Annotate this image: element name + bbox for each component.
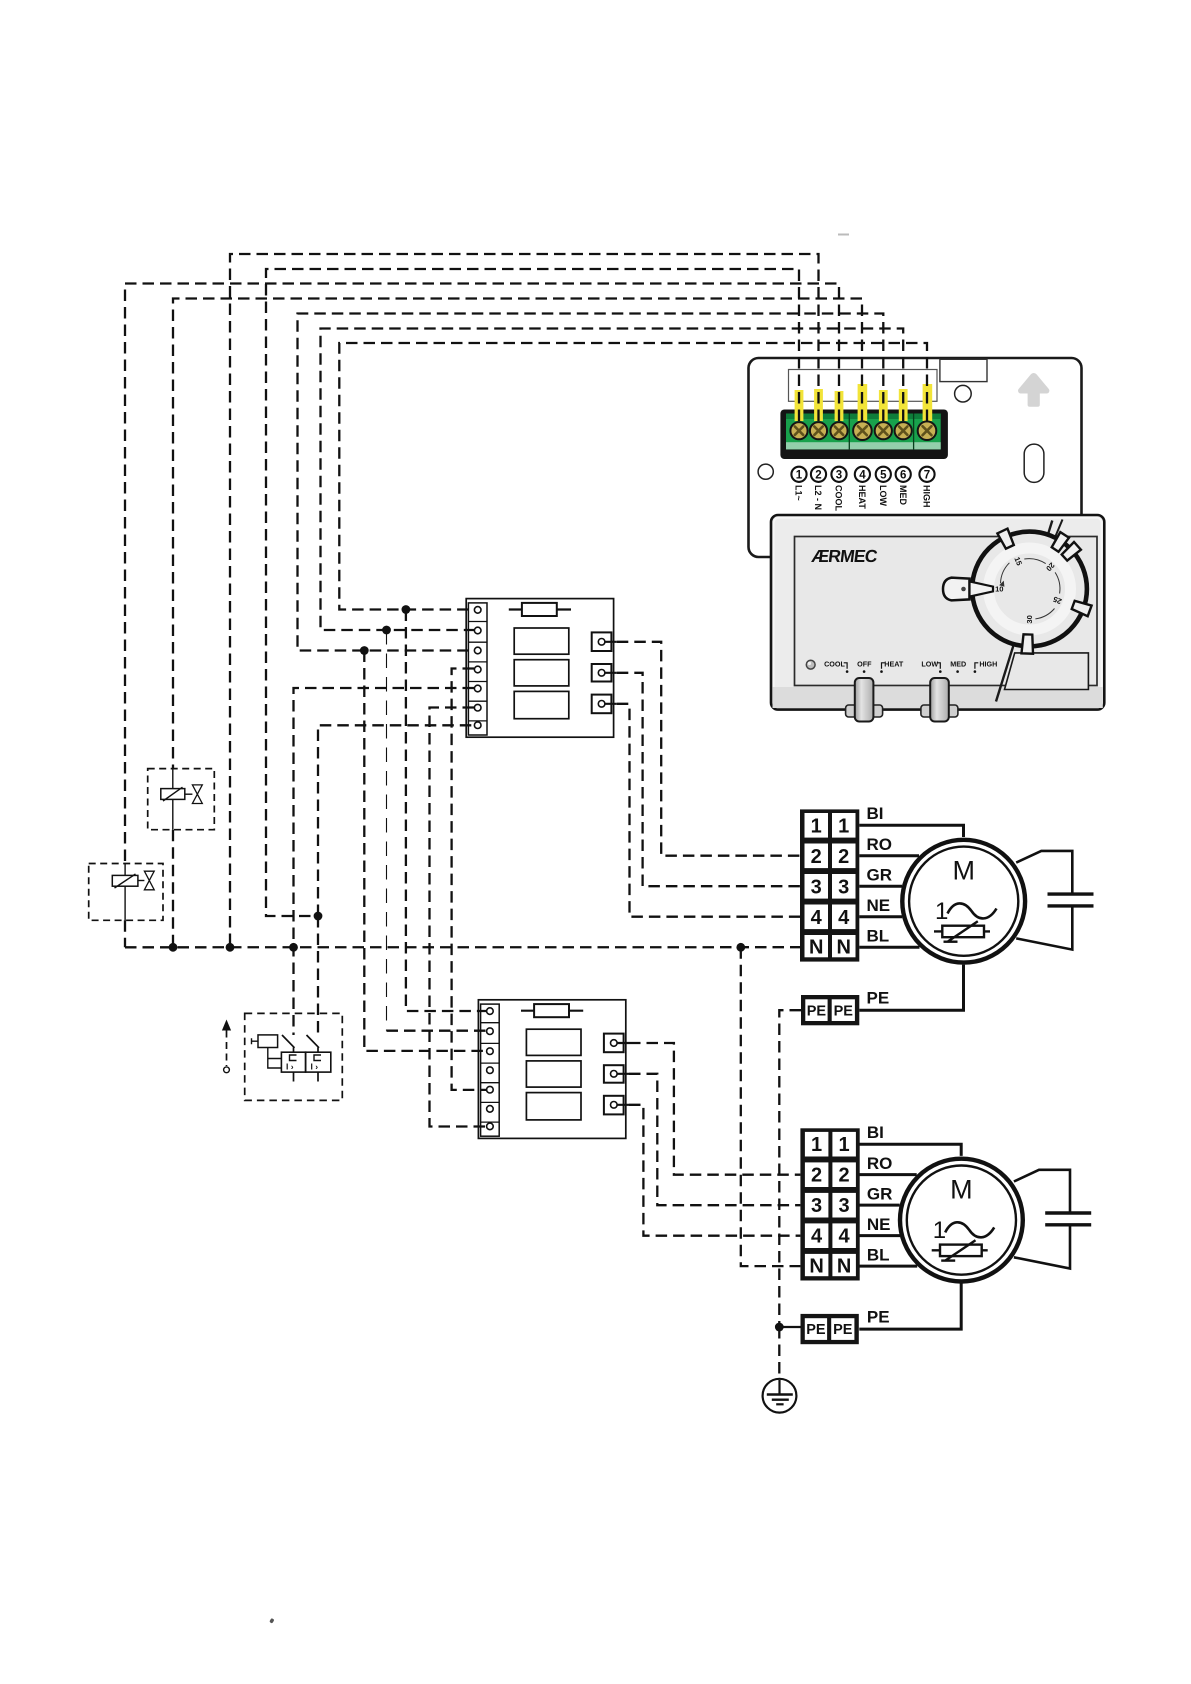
junction PE riser / motor 2 PE — [775, 1323, 784, 1332]
svg-text:L2 - N: L2 - N — [813, 485, 823, 510]
svg-text:RO: RO — [867, 835, 893, 854]
svg-text:1: 1 — [838, 815, 849, 837]
thermostat terminal number rings 1-7 — [791, 467, 934, 482]
wire relay K1 terminal 6 to relay K2 terminal 7 — [430, 708, 487, 1127]
wire L1 junction to relay K1 terminal 7 — [318, 725, 474, 916]
yellow wire stubs into terminals 1-7 — [795, 384, 933, 421]
svg-text:N: N — [837, 1255, 851, 1277]
motor 1 PE terminal block — [801, 995, 859, 1025]
mounting hole (round, upper) — [955, 385, 972, 402]
svg-text:LOW: LOW — [878, 485, 888, 506]
svg-text:OFF: OFF — [857, 659, 872, 668]
svg-text:MED: MED — [898, 485, 908, 506]
motor 1 terminal block (1 2 3 4 N) — [800, 809, 859, 961]
K2 output stubs — [617, 1043, 629, 1105]
wire LOW branch to relay K2 terminal 3 — [364, 651, 486, 1051]
svg-text:RO: RO — [867, 1154, 893, 1173]
svg-text:PE: PE — [807, 1003, 827, 1019]
K2 relay coil 1 — [526, 1029, 581, 1055]
label sticker (quadrilateral) — [1005, 653, 1089, 690]
terminal block green body — [786, 414, 941, 450]
svg-text:2: 2 — [838, 846, 849, 868]
manual actuation arrow beside QM — [222, 1020, 231, 1073]
K1 relay coil 2 — [514, 660, 569, 686]
svg-text:PE: PE — [867, 989, 890, 1008]
relay K2 input terminal screws 1-7 — [487, 1008, 617, 1130]
Y1 valve body — [192, 785, 202, 804]
terminal group separators — [848, 414, 850, 450]
junction neutral bus / motor 2 N riser — [736, 943, 745, 952]
slider handle LOW/MED/HIGH — [930, 678, 949, 722]
wire relay K1 output 1 to motor 1 terminal 2 — [617, 642, 800, 856]
motor 1 (M 1~ with thermal protector) — [859, 825, 1025, 1010]
motor 2 sine symbol — [945, 1222, 994, 1237]
wire PE link to motor 2 PE block (solid) — [779, 1326, 800, 1328]
svg-text:COOL: COOL — [834, 485, 844, 512]
svg-text:1: 1 — [839, 1134, 850, 1156]
wire relay K2 output 1 to motor 2 terminal 2 — [629, 1043, 800, 1175]
terminal opening window — [789, 370, 938, 402]
wire relay K1 output 2 to motor 1 terminal 3 — [617, 673, 800, 886]
svg-text:3: 3 — [811, 876, 822, 898]
svg-text:1: 1 — [811, 815, 822, 837]
junction neutral bus / L2-N feed — [226, 943, 235, 952]
svg-text:4: 4 — [838, 907, 850, 929]
dial scale arcs — [1001, 559, 1060, 619]
temperature dial — [943, 529, 1092, 654]
motor 2 thermal protector symbol — [932, 1249, 988, 1251]
K1 relay coil 3 — [514, 691, 569, 718]
Y2 valve body — [144, 871, 154, 890]
motor protection switch QM (dashed enclosure) — [245, 1013, 343, 1100]
K1 relay coil 1 — [514, 628, 569, 654]
wire LOW thermostat 5 to relay K1 terminal 3 — [298, 314, 884, 651]
mode labels — [824, 659, 997, 668]
svg-text:ÆRMEC: ÆRMEC — [811, 546, 880, 566]
neutral bus — [125, 946, 800, 948]
stray print speck top right — [838, 234, 849, 236]
motor 1 sine symbol — [948, 903, 997, 918]
motor 1 wire labels — [867, 804, 893, 1008]
wire L1 junction down to QM pole 2 — [317, 916, 319, 1035]
wire COOL thermostat 3 through valve Y2 to bus — [125, 284, 839, 864]
motor 2 wire labels — [867, 1123, 893, 1327]
junction dots — [169, 605, 784, 1331]
svg-text:1: 1 — [796, 469, 803, 481]
terminal block housing (black) — [780, 410, 948, 460]
relay board K1 (upper fan-speed relay box) — [466, 599, 617, 738]
motor 2 PE lead — [859, 1284, 961, 1330]
svg-text:GR: GR — [867, 866, 893, 885]
Y1 coil — [161, 789, 185, 800]
K1 output terminal 1 — [592, 632, 612, 651]
motor 2 PE terminal block — [801, 1314, 859, 1344]
QM pole 2 contact blade — [307, 1035, 320, 1048]
svg-text:1: 1 — [935, 898, 948, 925]
junction LOW branch — [360, 646, 369, 655]
junction L1 node — [314, 912, 323, 921]
wire relay K2 output 2 to motor 2 terminal 3 — [629, 1074, 800, 1205]
svg-text:NE: NE — [867, 1215, 891, 1234]
svg-text:2: 2 — [815, 469, 821, 481]
Y2 through wire — [124, 864, 126, 921]
K1 output stubs — [605, 642, 617, 704]
wire relay K1 terminal 5 to neutral bus and QM pole 1 — [294, 688, 475, 1035]
junction neutral bus / K1 terminal 5 riser — [289, 943, 298, 952]
svg-text:1: 1 — [811, 1134, 822, 1156]
svg-text:PE: PE — [806, 1322, 826, 1338]
wire HIGH thermostat 7 to relay K1 terminal 1 — [339, 343, 927, 610]
svg-text:BL: BL — [867, 1245, 890, 1264]
Y1 through wire — [172, 769, 174, 830]
dial numbers — [995, 556, 1063, 624]
wire MED branch riser (thin) — [386, 630, 388, 1031]
K2 input terminal strip — [481, 1004, 500, 1136]
junction neutral bus / HEAT valve return — [169, 943, 178, 952]
K2 output terminal 2 — [604, 1065, 624, 1083]
motor 1 PE lead — [859, 965, 963, 1011]
Y2 coil — [112, 875, 138, 886]
svg-text:BI: BI — [867, 1123, 884, 1142]
svg-text:I ›: I › — [286, 1061, 294, 1071]
QM overload trip labels I> — [286, 1061, 318, 1071]
relay K1 input terminal screws 1-7 — [474, 607, 604, 729]
K1 output terminal 3 — [592, 695, 612, 714]
svg-text:L1~: L1~ — [794, 485, 804, 501]
wire relay K2 output 3 to motor 2 terminal 4 — [629, 1105, 800, 1236]
mounting hole (round, left) — [758, 464, 773, 479]
wire relay K1 output 3 to motor 1 terminal 4 — [617, 704, 800, 917]
svg-text:MED: MED — [950, 659, 966, 668]
svg-text:BI: BI — [867, 804, 884, 823]
junction MED branch — [382, 626, 391, 635]
svg-text:4: 4 — [811, 907, 823, 929]
wire HEAT thermostat 4 through valve Y1 to bus — [173, 299, 862, 769]
orientation arrow (grey, up) — [1018, 373, 1049, 407]
dial grip slots — [997, 529, 1091, 654]
svg-text:3: 3 — [836, 469, 842, 481]
wire HIGH branch to relay K2 terminal 1 — [406, 610, 487, 1012]
svg-text:1: 1 — [933, 1217, 946, 1244]
svg-text:5: 5 — [880, 469, 887, 481]
motor 2 lead wires — [859, 1144, 961, 1266]
svg-text:7: 7 — [924, 469, 930, 481]
QM operator stub — [252, 1038, 259, 1044]
svg-text:HIGH: HIGH — [979, 659, 997, 668]
svg-text:4: 4 — [839, 1226, 851, 1248]
K2 relay coil 3 — [526, 1093, 581, 1120]
wire MED branch to relay K2 terminal 2 (horizontal) — [387, 1030, 487, 1032]
svg-text:I ›: I › — [311, 1061, 319, 1071]
svg-text:N: N — [809, 937, 823, 959]
svg-text:4: 4 — [859, 469, 866, 481]
svg-text:GR: GR — [867, 1184, 893, 1203]
K2 output terminal 1 — [604, 1034, 624, 1053]
thermostat wall backplate — [749, 358, 1082, 557]
junction HIGH branch — [402, 605, 411, 614]
K2 relay coil 2 — [526, 1061, 581, 1087]
raised facet edge (diagonal, bottom right) — [996, 521, 1052, 702]
svg-text:N: N — [836, 937, 850, 959]
svg-text:3: 3 — [839, 1195, 850, 1217]
svg-text:PE: PE — [834, 1003, 854, 1019]
thermostat terminal screws 1-7 (brass) — [790, 421, 936, 440]
svg-text:10: 10 — [995, 584, 1003, 593]
relay K1 output terminal screws — [598, 639, 605, 646]
clip rectangle top right of backplate — [940, 359, 987, 381]
QM pole 1 overload box — [281, 1052, 305, 1072]
slider slot tabs under cover edge — [846, 705, 958, 717]
stray print speck bottom left — [269, 1618, 274, 1624]
svg-text:HEAT: HEAT — [884, 659, 904, 668]
svg-text:COOL: COOL — [824, 659, 845, 668]
AERMEC logo — [811, 546, 880, 566]
fuse F1 — [509, 608, 571, 610]
svg-text:M: M — [952, 856, 975, 886]
svg-text:2: 2 — [811, 846, 822, 868]
LED indicator — [806, 660, 815, 669]
K1 input terminal strip — [468, 603, 487, 735]
svg-text:HIGH: HIGH — [922, 485, 932, 508]
QM linkage — [268, 1048, 282, 1069]
svg-text:N: N — [809, 1255, 823, 1277]
wire L2-N thermostat 2 to neutral bus — [230, 254, 819, 947]
wire neutral bus to motor 2 N — [741, 947, 801, 1266]
svg-text:2: 2 — [839, 1165, 850, 1187]
thermostat terminal function labels — [794, 485, 932, 512]
svg-text:PE: PE — [833, 1322, 853, 1338]
motor 1 run capacitor — [1016, 851, 1093, 950]
svg-text:3: 3 — [811, 1195, 822, 1217]
motor 1 lead wires — [859, 825, 963, 947]
wire MED thermostat 6 to relay K1 terminal 2 — [321, 329, 904, 631]
fuse F2 — [521, 1010, 583, 1012]
svg-text:BL: BL — [867, 927, 890, 946]
svg-text:6: 6 — [900, 469, 906, 481]
motor 2 (M 1~ with thermal protector) — [859, 1144, 1023, 1329]
QM operator box — [258, 1035, 278, 1048]
K1 output terminal 2 — [592, 664, 612, 682]
svg-text:3: 3 — [838, 876, 849, 898]
dial pointer knob — [943, 578, 970, 601]
keyhole slot (oval) — [1024, 444, 1044, 482]
svg-text:M: M — [950, 1174, 973, 1204]
relay board K2 (lower fan-speed relay box) — [478, 1000, 629, 1139]
mode tick marks and dots — [844, 663, 979, 669]
svg-text:4: 4 — [811, 1226, 823, 1248]
motor 1 thermal protector symbol — [934, 930, 990, 932]
thermostat front cover — [771, 515, 1104, 722]
solenoid valve Y1 (heat) dashed enclosure — [148, 769, 215, 830]
wire relay K1 terminal 4 to relay K2 terminal 5 — [452, 669, 487, 1090]
svg-text:LOW: LOW — [921, 659, 938, 668]
front inner panel — [795, 537, 1098, 686]
wire L1~ thermostat 1 to junction — [266, 269, 799, 916]
svg-text:30: 30 — [1025, 615, 1034, 623]
wire PE riser motor 1 PE to motor 2 PE and earth — [779, 1010, 801, 1327]
relay K2 output terminal screws — [611, 1040, 618, 1047]
QM pole 1 contact blade — [282, 1035, 295, 1048]
svg-text:2: 2 — [811, 1165, 822, 1187]
protective earth symbol — [763, 1379, 797, 1413]
svg-text:NE: NE — [867, 896, 891, 915]
QM pole 2 overload box — [306, 1052, 331, 1072]
svg-text:HEAT: HEAT — [857, 485, 867, 509]
solenoid valve Y2 (cool) dashed enclosure — [89, 864, 163, 921]
motor 2 terminal block (1 2 3 4 N) — [800, 1128, 859, 1280]
K2 output terminal 3 — [604, 1096, 624, 1115]
motor 2 run capacitor — [1014, 1170, 1091, 1269]
svg-text:PE: PE — [867, 1307, 890, 1326]
